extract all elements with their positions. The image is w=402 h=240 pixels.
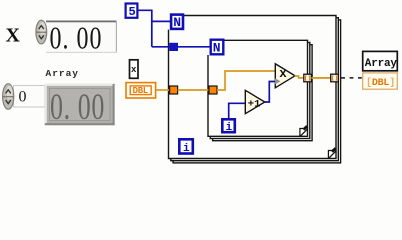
wire multiply to inner output tunnel bbox=[295, 76, 304, 78]
numeric field of control X bbox=[46, 21, 117, 54]
inner for-loop frame (stack of 3) bbox=[208, 40, 312, 140]
orange wire between tunnels bbox=[178, 89, 209, 91]
svg-text:+1: +1 bbox=[248, 98, 261, 110]
array index field bbox=[14, 86, 46, 108]
dashed wire to Array indicator terminal bbox=[341, 77, 362, 79]
orange wire DBL to outer tunnel bbox=[156, 89, 170, 91]
increment/decrement spinner of control X bbox=[36, 20, 47, 44]
increment operator +1 bbox=[245, 90, 264, 113]
auto-indexing tunnel on outer loop right border bbox=[331, 74, 339, 82]
wire branch to outer loop count terminal N bbox=[152, 20, 170, 22]
constant 5 bbox=[126, 4, 138, 20]
orange wire to multiply upper input bbox=[217, 71, 276, 90]
svg-text:0. 00: 0. 00 bbox=[50, 21, 103, 56]
indicator terminal label box Array bbox=[363, 51, 398, 70]
svg-text:x: x bbox=[131, 65, 137, 75]
svg-text:[DBL]: [DBL] bbox=[366, 77, 395, 89]
outer loop iteration terminal i bbox=[179, 139, 193, 155]
svg-text:0: 0 bbox=[19, 89, 27, 106]
wire to inner loop count terminal N bbox=[152, 46, 211, 48]
svg-text:X: X bbox=[6, 25, 21, 47]
svg-text:N: N bbox=[213, 41, 221, 56]
multiply operator bbox=[275, 64, 295, 88]
svg-text:DBL: DBL bbox=[133, 86, 148, 96]
orange tunnel on inner loop border bbox=[209, 86, 217, 94]
svg-text:x: x bbox=[279, 67, 287, 81]
outer loop folded corner bbox=[328, 148, 336, 158]
svg-text:i: i bbox=[183, 143, 190, 155]
auto-indexing tunnel on inner loop right border bbox=[304, 74, 312, 82]
blue tunnel on outer loop border bbox=[169, 43, 178, 51]
wire increment to multiply bbox=[265, 82, 276, 103]
svg-text:N: N bbox=[173, 15, 181, 30]
svg-text:5: 5 bbox=[129, 5, 136, 19]
wire inner i to increment bbox=[229, 103, 246, 118]
outer for-loop frame (stack of 3) bbox=[169, 16, 341, 163]
inner loop iteration terminal i bbox=[222, 119, 235, 134]
orange wire between output tunnels bbox=[311, 77, 330, 79]
svg-text:i: i bbox=[226, 122, 233, 134]
value 0.00 of control X bbox=[50, 21, 103, 56]
coercion dot on multiply lower input bbox=[275, 78, 281, 84]
svg-text:Array: Array bbox=[46, 68, 80, 79]
svg-text:Array: Array bbox=[365, 58, 398, 70]
local variable label x bbox=[130, 60, 139, 79]
indicator terminal [DBL] bbox=[363, 73, 398, 89]
inner loop count terminal N bbox=[211, 40, 224, 56]
grayed value 0.00 bbox=[50, 86, 105, 126]
inner loop folded corner bbox=[300, 126, 308, 136]
outer loop count terminal N bbox=[171, 15, 183, 31]
array element display (grayed numeric) bbox=[45, 84, 115, 125]
svg-text:0. 00: 0. 00 bbox=[50, 86, 105, 126]
orange tunnel on outer loop border bbox=[170, 86, 178, 94]
wire from constant 5 bbox=[139, 10, 152, 47]
array index spinner bbox=[3, 84, 14, 110]
control terminal DBL of X bbox=[126, 83, 156, 98]
